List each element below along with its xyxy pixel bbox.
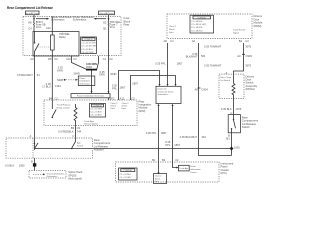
svg-text:B1: B1 xyxy=(152,158,156,162)
svg-text:Trunk Ajar: Trunk Ajar xyxy=(179,167,188,170)
svg-text:C2: C2 xyxy=(175,158,179,162)
svg-text:(DDM): (DDM) xyxy=(254,24,262,28)
svg-text:(kick panel): (kick panel) xyxy=(68,177,82,181)
svg-text:Rear: Rear xyxy=(124,22,130,26)
svg-text:(RIM): (RIM) xyxy=(139,109,146,113)
svg-text:A13: A13 xyxy=(46,26,51,30)
svg-text:10 A: 10 A xyxy=(36,25,41,29)
svg-text:Serial: Serial xyxy=(111,104,117,107)
svg-text:B4: B4 xyxy=(49,96,53,100)
svg-text:Schematics: Schematics xyxy=(51,18,65,22)
svg-text:B: B xyxy=(31,159,33,163)
svg-text:10 A: 10 A xyxy=(110,25,115,29)
svg-text:Relay Control: Relay Control xyxy=(57,106,71,109)
svg-text:1807: 1807 xyxy=(120,86,126,90)
svg-text:Relay: Relay xyxy=(59,35,66,39)
svg-text:0.5 RED/BLK: 0.5 RED/BLK xyxy=(58,130,74,134)
svg-text:C4 = 48 BLU: C4 = 48 BLU xyxy=(191,30,203,32)
svg-text:A: A xyxy=(30,134,32,138)
svg-text:Driver: Driver xyxy=(190,165,196,168)
svg-text:Information: Information xyxy=(190,168,201,171)
svg-text:Signal: Signal xyxy=(233,32,239,34)
svg-text:CONN ID: CONN ID xyxy=(123,170,132,172)
svg-text:0.35 TAN/WHT: 0.35 TAN/WHT xyxy=(204,64,222,68)
svg-text:CONN ID: CONN ID xyxy=(84,39,93,41)
svg-text:Actuator: Actuator xyxy=(94,148,104,152)
svg-text:Serial: Serial xyxy=(122,104,128,107)
svg-text:ORN: ORN xyxy=(57,68,63,72)
svg-text:S308: S308 xyxy=(57,78,64,82)
svg-text:B1: B1 xyxy=(103,27,107,31)
svg-text:C3: C3 xyxy=(73,57,77,61)
svg-text:361: 361 xyxy=(202,135,207,139)
svg-text:B3: B3 xyxy=(71,126,75,130)
svg-text:C1 = 48 LT GRY: C1 = 48 LT GRY xyxy=(81,42,96,44)
svg-text:Trunk Ajar: Trunk Ajar xyxy=(84,120,94,123)
svg-text:3076: 3076 xyxy=(245,64,251,68)
svg-text:Switch: Switch xyxy=(242,125,250,129)
svg-text:C904: C904 xyxy=(201,88,208,92)
svg-text:1000: 1000 xyxy=(234,145,240,149)
svg-text:LT BLU: LT BLU xyxy=(42,85,51,89)
svg-text:0.35 BLK/WHT: 0.35 BLK/WHT xyxy=(180,135,198,139)
svg-text:Ground Distribution: Ground Distribution xyxy=(47,172,66,175)
svg-text:Serial: Serial xyxy=(169,28,175,31)
svg-text:Schematics: Schematics xyxy=(158,93,169,96)
svg-text:D1: D1 xyxy=(103,21,107,25)
svg-text:0.5 BLK: 0.5 BLK xyxy=(5,163,14,167)
svg-text:C1: C1 xyxy=(55,96,59,100)
svg-text:364D: 364D xyxy=(74,72,80,76)
svg-text:C4 = 48 ORN: C4 = 48 ORN xyxy=(81,52,94,54)
svg-text:Rear Compartment Lid Release: Rear Compartment Lid Release xyxy=(7,6,53,10)
svg-text:C2 = 48 DK GRY: C2 = 48 DK GRY xyxy=(191,24,207,26)
svg-text:Hot at All Times: Hot at All Times xyxy=(100,12,114,15)
svg-text:PPL: PPL xyxy=(165,143,170,147)
svg-text:1807: 1807 xyxy=(174,143,180,147)
svg-text:Lid Switch: Lid Switch xyxy=(221,79,231,82)
svg-text:C3 = 48 BLK: C3 = 48 BLK xyxy=(81,49,93,51)
svg-text:C2: C2 xyxy=(54,57,58,61)
svg-text:EF2: EF2 xyxy=(110,96,115,100)
svg-text:0.5 BLK/WHT: 0.5 BLK/WHT xyxy=(17,73,33,77)
svg-text:C: C xyxy=(72,134,74,138)
svg-text:Ajar: Ajar xyxy=(77,142,81,145)
svg-text:Switch: Switch xyxy=(77,144,84,147)
svg-text:BLK/WHT: BLK/WHT xyxy=(186,55,198,59)
svg-text:C3 = 24 BLU: C3 = 24 BLU xyxy=(90,115,102,117)
svg-text:C2: C2 xyxy=(109,57,113,61)
svg-text:1076: 1076 xyxy=(236,107,242,111)
svg-text:Connector (DLC): Connector (DLC) xyxy=(158,90,174,93)
svg-text:(DDSA): (DDSA) xyxy=(246,87,255,91)
svg-text:C2 = 48 DK GRN: C2 = 48 DK GRN xyxy=(81,46,97,48)
svg-text:361: 361 xyxy=(225,137,230,141)
svg-text:Trunk Rel Sw: Trunk Rel Sw xyxy=(233,29,246,32)
svg-text:1807: 1807 xyxy=(161,131,167,135)
svg-text:Hot at All Times: Hot at All Times xyxy=(25,12,39,15)
svg-text:PPL: PPL xyxy=(112,86,117,90)
svg-text:B4: B4 xyxy=(239,39,243,43)
svg-text:C2 = 24 GRY: C2 = 24 GRY xyxy=(120,177,133,179)
svg-text:Rear Comp: Rear Comp xyxy=(221,76,232,79)
svg-text:C2 = 24 BLK: C2 = 24 BLK xyxy=(90,112,102,114)
svg-text:C4: C4 xyxy=(28,27,32,31)
svg-text:C: C xyxy=(231,111,233,115)
svg-text:Trunk Release: Trunk Release xyxy=(57,104,72,107)
svg-text:H8: H8 xyxy=(28,21,32,25)
svg-text:A3: A3 xyxy=(237,54,241,58)
svg-text:Sensor Signal: Sensor Signal xyxy=(84,123,98,126)
svg-text:744: 744 xyxy=(77,130,82,134)
svg-text:364D: 364D xyxy=(110,72,116,76)
svg-text:C3: C3 xyxy=(77,126,81,130)
svg-text:0.35 BLK: 0.35 BLK xyxy=(221,107,232,111)
svg-text:364D: 364D xyxy=(86,65,92,69)
svg-text:Schematics: Schematics xyxy=(47,175,58,178)
svg-text:Class 2: Class 2 xyxy=(155,176,163,178)
svg-text:Distribution: Distribution xyxy=(80,80,91,83)
svg-text:C903: C903 xyxy=(246,54,253,58)
svg-text:C2: C2 xyxy=(131,96,135,100)
svg-text:A10: A10 xyxy=(66,57,71,61)
svg-text:C1 = 48 BLK: C1 = 48 BLK xyxy=(191,21,203,23)
svg-text:A12: A12 xyxy=(120,96,125,100)
svg-text:Power Distribution Schematic: Power Distribution Schematic xyxy=(77,95,104,98)
svg-text:1344: 1344 xyxy=(55,84,61,88)
svg-text:561: 561 xyxy=(201,54,206,58)
svg-text:Class 2: Class 2 xyxy=(169,26,177,28)
svg-text:C1: C1 xyxy=(170,39,174,43)
svg-text:A8: A8 xyxy=(164,39,168,43)
svg-text:C1: C1 xyxy=(103,57,107,61)
svg-text:0.35 PPL: 0.35 PPL xyxy=(146,131,157,135)
svg-text:A: A xyxy=(225,71,227,75)
svg-text:D8: D8 xyxy=(48,57,52,61)
svg-text:Serial: Serial xyxy=(155,178,161,180)
svg-text:C2: C2 xyxy=(245,39,249,43)
svg-text:C3 = 48 BLK: C3 = 48 BLK xyxy=(191,27,203,29)
svg-text:Schematics: Schematics xyxy=(73,18,87,22)
svg-text:(IPC): (IPC) xyxy=(221,171,227,175)
svg-text:Power: Power xyxy=(80,77,86,80)
svg-text:Center: Center xyxy=(190,171,197,174)
svg-text:C1 = 24 BLK: C1 = 24 BLK xyxy=(120,174,132,176)
svg-text:ORN: ORN xyxy=(99,73,105,77)
svg-text:A9: A9 xyxy=(30,57,34,61)
svg-text:Schematics: Schematics xyxy=(80,82,91,85)
svg-text:3076: 3076 xyxy=(245,45,251,49)
svg-text:A2: A2 xyxy=(192,39,196,43)
svg-text:C1 = 24 GRY: C1 = 24 GRY xyxy=(90,109,103,111)
svg-text:0.35 PPL: 0.35 PPL xyxy=(155,62,166,66)
svg-text:0.35 TAN/WHT: 0.35 TAN/WHT xyxy=(204,45,222,49)
svg-text:1807: 1807 xyxy=(132,82,138,86)
svg-text:B2: B2 xyxy=(162,158,166,162)
svg-text:Data Link: Data Link xyxy=(158,88,168,91)
svg-text:CONN ID: CONN ID xyxy=(197,17,206,19)
svg-text:1050: 1050 xyxy=(19,163,25,167)
svg-text:CONN ID: CONN ID xyxy=(93,105,102,107)
svg-text:1807: 1807 xyxy=(177,62,183,66)
